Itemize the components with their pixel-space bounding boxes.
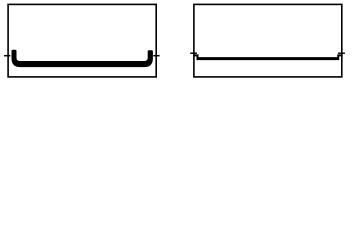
right wall tick (right side) (338, 52, 345, 54)
left container box (8, 4, 156, 77)
right container box (194, 4, 342, 77)
thick upturned strap in left box (12, 50, 153, 67)
right wall tick (left side) (190, 52, 197, 54)
stepped line in right box (193, 54, 343, 60)
left wall tick (right side) (153, 55, 159, 57)
left wall tick (left side) (4, 55, 10, 57)
